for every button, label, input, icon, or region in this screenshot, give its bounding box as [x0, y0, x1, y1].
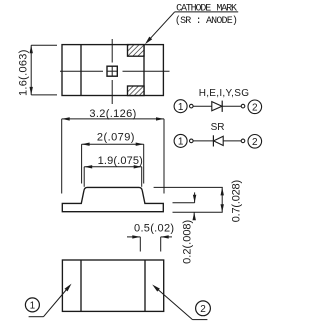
dimension 0.2(.008) — [173, 192, 197, 220]
diode D2 pin 2 terminal — [241, 139, 245, 143]
diode D2 triangle — [214, 136, 224, 145]
diode D2 cathode wire — [193, 140, 213, 142]
top view package outline — [62, 45, 163, 96]
cathode mark label — [176, 3, 237, 14]
cathode mark hatch top — [128, 45, 145, 57]
svg-text:SR: SR — [211, 122, 225, 133]
svg-text:(SR : ANODE): (SR : ANODE) — [175, 15, 237, 27]
svg-text:2: 2 — [200, 304, 206, 315]
LED die square — [107, 66, 117, 76]
svg-text:H,E,I,Y,SG: H,E,I,Y,SG — [199, 88, 250, 99]
diode D1 triangle — [212, 102, 222, 111]
top view left electrode line — [80, 45, 82, 96]
svg-text:2: 2 — [252, 102, 258, 113]
svg-text:1.9(.075): 1.9(.075) — [98, 155, 143, 167]
dimension text 0.7(.028) — [231, 180, 243, 222]
dimension 1.9(.075) — [84, 165, 142, 187]
pin 2 leader — [152, 285, 207, 320]
svg-text:2(.079): 2(.079) — [97, 132, 135, 144]
dimension text 2(.079) — [97, 132, 135, 144]
pin 1 leader — [29, 284, 72, 317]
svg-text:2: 2 — [252, 137, 258, 148]
svg-text:1: 1 — [178, 137, 184, 148]
diode D2 pin 2 circled number — [248, 135, 262, 149]
svg-text:1.6(.063): 1.6(.063) — [18, 49, 30, 96]
svg-text:1: 1 — [178, 102, 184, 113]
pin 1 circled number — [25, 298, 39, 312]
svg-text:1: 1 — [30, 301, 36, 312]
diode D1 anode wire — [193, 105, 212, 107]
diode D2 cathode bar — [212, 135, 214, 146]
svg-text:0.2(.008): 0.2(.008) — [181, 220, 193, 264]
vertical centerline — [111, 39, 113, 104]
diode D1 pin 2 terminal — [241, 104, 245, 108]
side view package profile — [62, 187, 163, 211]
svg-text:CATHODE: CATHODE — [176, 3, 211, 14]
diode D1 pin 1 circled number — [174, 100, 187, 113]
dimension 2(.079) — [82, 143, 144, 184]
diode D1 label H,E,I,Y,SG — [199, 88, 250, 99]
diode D1 pin 1 terminal — [190, 104, 194, 108]
dimension text 3.2(.126) — [89, 108, 136, 120]
svg-text:MARK: MARK — [216, 3, 237, 14]
dimension text 1.6(.063) — [18, 49, 30, 96]
svg-text:0.5(.02): 0.5(.02) — [134, 222, 174, 234]
diode D1 pin 2 circled number — [248, 100, 262, 114]
diode D1 cathode wire — [222, 105, 241, 107]
diode D2 label SR — [211, 122, 225, 133]
diode D1 cathode bar — [221, 101, 223, 112]
svg-text:0.7(.028): 0.7(.028) — [231, 180, 243, 222]
diode D2 anode wire — [223, 140, 241, 142]
top view right electrode line — [143, 45, 145, 96]
svg-text:3.2(.126): 3.2(.126) — [89, 108, 136, 120]
bottom view right electrode line — [144, 260, 146, 311]
horizontal centerline — [60, 70, 170, 72]
dimension 1.6(.063) — [30, 45, 58, 95]
cathode mark hatch bottom — [128, 86, 145, 96]
dimension 3.2(.126) — [62, 117, 164, 193]
die cross — [107, 66, 117, 76]
dimension 0.5(.02) — [127, 235, 172, 251]
dimension text 1.9(.075) — [98, 155, 143, 167]
dimension text 0.2(.008) — [181, 220, 193, 264]
pin 2 circled number — [196, 301, 211, 316]
dimension 0.7(.028) — [154, 187, 224, 212]
cathode mark label SR : ANODE — [175, 15, 237, 27]
cathode mark leader — [145, 12, 238, 44]
diode D2 pin 1 circled number — [174, 134, 187, 147]
diode D2 pin 1 terminal — [190, 139, 194, 143]
bottom view left electrode line — [80, 260, 82, 311]
dimension text 0.5(.02) — [134, 222, 174, 234]
bottom view package outline — [62, 260, 163, 311]
